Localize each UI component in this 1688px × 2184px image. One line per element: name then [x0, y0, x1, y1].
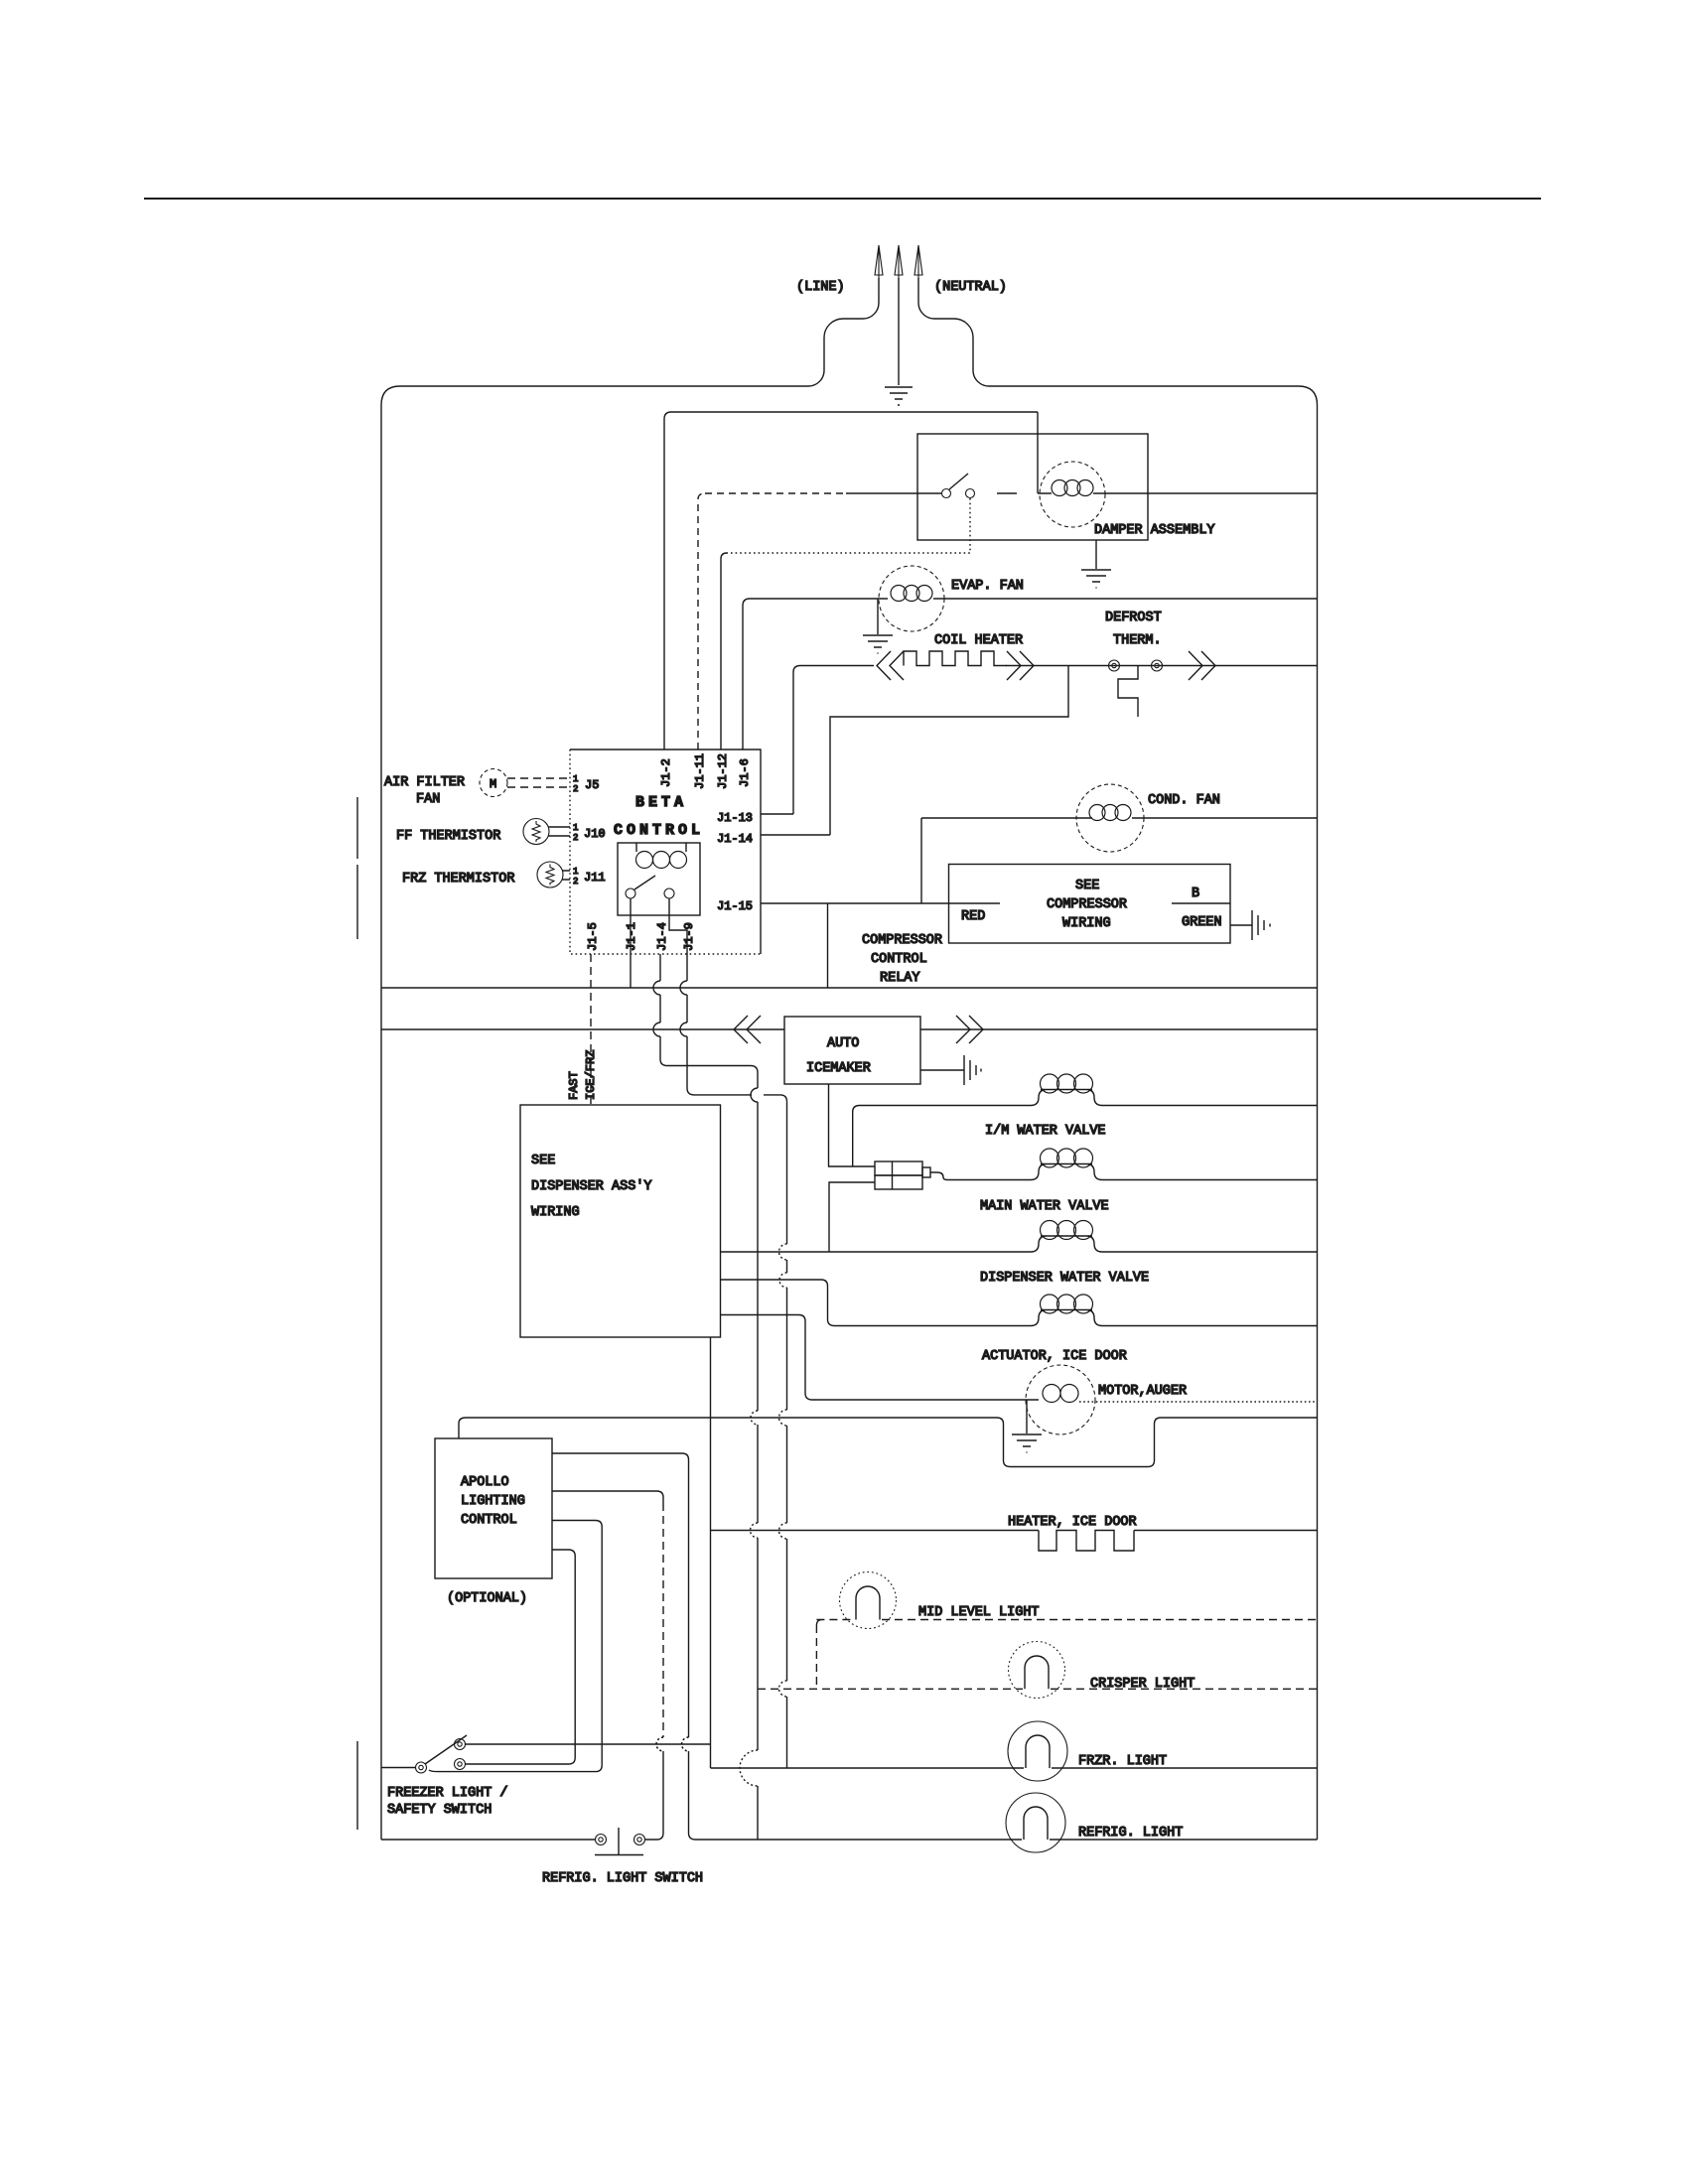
svg-text:2: 2	[573, 784, 578, 794]
ground symbol rotated icemaker	[964, 1055, 981, 1085]
svg-text:WIRING: WIRING	[531, 1205, 580, 1220]
wire solid into damper switch	[846, 492, 941, 494]
svg-text:M: M	[490, 777, 496, 791]
svg-text:COMPRESSOR: COMPRESSOR	[862, 933, 942, 948]
I/M water valve solenoid	[1031, 1090, 1318, 1106]
hop apollo pin1 over freezer wire	[682, 1737, 689, 1751]
svg-text:J11: J11	[584, 871, 606, 885]
defrost therm capillary step	[1118, 666, 1138, 718]
svg-text:REFRIG. LIGHT: REFRIG. LIGHT	[1078, 1826, 1183, 1841]
svg-text:EVAP. FAN: EVAP. FAN	[951, 579, 1024, 594]
svg-text:B: B	[1192, 887, 1199, 901]
svg-text:J1-1: J1-1	[625, 922, 638, 951]
hop apollo pin2 over freezer wire	[656, 1737, 663, 1751]
wires air filter fan to J5 dashed	[507, 778, 570, 787]
wire evap fan to right bus	[933, 598, 1318, 600]
hop J1-4 over icemaker line	[653, 1023, 660, 1059]
svg-text:J1-14: J1-14	[717, 832, 753, 846]
hop bump middle trunk over heater wire	[751, 1523, 759, 1538]
relay switch blade	[634, 876, 655, 889]
svg-text:(NEUTRAL): (NEUTRAL)	[934, 280, 1007, 295]
relay switch contact left	[626, 888, 635, 898]
wire apollo pin4 drop to switch contact	[466, 1550, 575, 1764]
wire frzr light row	[711, 1767, 1318, 1769]
svg-text:J5: J5	[585, 778, 599, 792]
wire J1-6 riser to evap fan	[743, 599, 888, 750]
power plug prong arrow (LINE)	[875, 245, 883, 279]
svg-text:ICE/FRZ: ICE/FRZ	[584, 1050, 598, 1100]
left bus wire	[380, 405, 382, 1840]
wires FRZ thermistor to J11	[562, 871, 570, 880]
svg-text:AIR FILTER: AIR FILTER	[384, 775, 465, 790]
wire dashed damper switch feed	[705, 492, 846, 494]
hop J1-9 over return line	[680, 954, 687, 1023]
svg-text:APOLLO: APOLLO	[461, 1475, 509, 1490]
svg-text:BETA: BETA	[635, 794, 687, 811]
damper assembly box	[917, 434, 1148, 540]
wire crisper light dashed	[758, 1688, 1318, 1690]
air filter fan motor dashed circle	[480, 769, 507, 797]
revision bracket upper	[356, 797, 358, 939]
actuator ice door solenoid	[1031, 1310, 1318, 1326]
wire damper feed drop	[1037, 412, 1039, 493]
refrig light lamp	[1006, 1793, 1065, 1852]
freezer switch upper contact	[455, 1739, 466, 1750]
svg-text:J1-11: J1-11	[693, 753, 707, 789]
hop J1-4 over return line	[653, 954, 660, 1023]
power plug prong arrow (NEUTRAL)	[914, 245, 922, 279]
svg-text:WIRING: WIRING	[1062, 916, 1111, 931]
wire icemaker feed line	[381, 1028, 784, 1030]
relay box inside beta control	[618, 843, 700, 915]
svg-text:J1-15: J1-15	[717, 899, 753, 913]
freezer switch lower contact	[455, 1759, 466, 1770]
svg-text:DAMPER ASSEMBLY: DAMPER ASSEMBLY	[1094, 523, 1215, 538]
svg-text:J1-12: J1-12	[716, 753, 730, 789]
connector chevrons coil heater left	[877, 651, 904, 680]
svg-text:MAIN WATER VALVE: MAIN WATER VALVE	[980, 1199, 1109, 1214]
coil heater element	[904, 651, 1007, 666]
svg-text:J1-4: J1-4	[655, 922, 669, 951]
svg-text:DISPENSER WATER VALVE: DISPENSER WATER VALVE	[980, 1271, 1149, 1286]
freezer light safety switch common terminal	[416, 1762, 427, 1773]
svg-text:I/M WATER VALVE: I/M WATER VALVE	[985, 1124, 1106, 1139]
outer trunk vertical from J1-9	[786, 1102, 788, 1768]
mid level light lamp	[840, 1572, 897, 1629]
ground symbol below plug	[885, 387, 913, 405]
wire apollo top feed and motor dip line	[459, 1418, 1318, 1467]
svg-text:J1-9: J1-9	[682, 922, 696, 951]
wire motor auger row from dispenser box	[721, 1315, 1040, 1401]
see dispenser ass'y wiring box	[520, 1105, 721, 1337]
connector chevrons coil heater right	[1007, 651, 1034, 680]
wire ground prong	[898, 278, 900, 385]
defrost therm terminal left	[1109, 660, 1120, 671]
wire motor auger ground stub	[1026, 1400, 1028, 1433]
wire motor auger dotted to right bus	[1079, 1401, 1318, 1403]
svg-text:ICEMAKER: ICEMAKER	[806, 1061, 871, 1076]
svg-text:CRISPER LIGHT: CRISPER LIGHT	[1090, 1677, 1195, 1692]
svg-text:GREEN: GREEN	[1182, 915, 1222, 930]
damper switch terminal left	[942, 489, 951, 498]
svg-text:LIGHTING: LIGHTING	[461, 1494, 525, 1509]
svg-text:SEE: SEE	[531, 1154, 555, 1168]
middle trunk vertical from J1-4	[751, 1073, 758, 1751]
wire damper ground stub	[1095, 540, 1097, 569]
connector chevrons icemaker left	[734, 1016, 761, 1043]
outer box top edge left segment with rounded corner	[381, 386, 808, 405]
svg-text:2: 2	[573, 833, 578, 843]
connector chevrons defrost right	[1189, 651, 1215, 680]
wire neutral prong to outer box top edge	[918, 278, 989, 386]
wire compressor return bottom line	[381, 987, 1318, 989]
hop bumps trunks over dip line	[751, 1411, 758, 1425]
relay coil	[636, 843, 686, 852]
dotted hop middle trunk over frzr wire	[740, 1750, 758, 1786]
wire green pin to ground	[1230, 924, 1252, 926]
motor auger dashed circle	[1026, 1365, 1095, 1434]
motor auger coil	[1043, 1385, 1060, 1403]
wire heater to right bus	[1134, 1530, 1318, 1532]
wire icemaker box drop to connector	[829, 1084, 876, 1166]
damper motor coil	[1038, 492, 1318, 494]
svg-text:J1-6: J1-6	[738, 758, 752, 787]
wire mid level light dashed	[816, 1619, 1317, 1621]
wire mid level dashed drop to crisper	[816, 1620, 822, 1690]
freezer switch blade	[425, 1735, 467, 1764]
evap fan dashed circle	[879, 566, 944, 631]
wire coil heater to defrost therm	[1006, 665, 1318, 667]
top horizontal rule	[144, 198, 1541, 200]
wire J1-4 jog to middle trunk	[660, 1059, 758, 1073]
svg-text:FRZ THERMISTOR: FRZ THERMISTOR	[402, 872, 514, 887]
heater ice door element	[1039, 1531, 1134, 1552]
wire riser to cond fan	[921, 818, 1092, 903]
svg-text:COMPRESSOR: COMPRESSOR	[1047, 897, 1127, 912]
svg-text:REFRIG. LIGHT SWITCH: REFRIG. LIGHT SWITCH	[542, 1871, 703, 1886]
wire actuator row from dispenser box	[721, 1280, 1032, 1326]
svg-text:CONTROL: CONTROL	[614, 822, 704, 839]
wire heater ice door row	[711, 1530, 1040, 1532]
wire I/M valve branch	[853, 1106, 1031, 1167]
svg-text:SAFETY SWITCH: SAFETY SWITCH	[387, 1803, 492, 1818]
frzr light lamp	[1008, 1721, 1067, 1781]
svg-text:SEE: SEE	[1075, 879, 1099, 893]
wire dispenser water valve row	[721, 1251, 1032, 1253]
auto icemaker box	[784, 1017, 920, 1084]
svg-text:J10: J10	[584, 827, 606, 841]
svg-text:COND. FAN: COND. FAN	[1148, 793, 1220, 808]
FRZ thermistor symbol	[537, 862, 563, 887]
svg-text:HEATER, ICE DOOR: HEATER, ICE DOOR	[1008, 1515, 1137, 1530]
connector chevrons icemaker right	[956, 1016, 983, 1043]
evap fan coil	[891, 586, 907, 602]
svg-text:J1-13: J1-13	[717, 811, 753, 825]
apollo lighting control box	[435, 1438, 552, 1578]
wires FF thermistor to J10	[548, 827, 570, 836]
wire J1-9 inside beta box	[669, 898, 687, 954]
wire bottom edge left to switch	[381, 1839, 595, 1841]
hop bumps verticals over freezer wire	[656, 1737, 689, 1751]
wire apollo pin2 dotted drop	[552, 1491, 663, 1503]
wire J1-1 drop to return line	[630, 898, 632, 988]
wire switch right terminal to riser	[645, 1834, 663, 1841]
wire inner top line J1-2 to damper feed	[664, 412, 1038, 750]
svg-text:DISPENSER ASS'Y: DISPENSER ASS'Y	[531, 1179, 652, 1194]
outer box top edge right segment with rounded corner	[989, 386, 1318, 405]
ground symbol rotated at compressor	[1252, 910, 1270, 940]
pin line B	[1172, 902, 1230, 904]
svg-text:FF THERMISTOR: FF THERMISTOR	[396, 829, 500, 844]
main water valve solenoid	[1031, 1164, 1318, 1180]
beta control box	[570, 750, 761, 954]
svg-text:CONTROL: CONTROL	[461, 1513, 517, 1528]
hop J1-9 over icemaker line	[680, 1023, 687, 1088]
relay switch contact right	[664, 888, 674, 898]
svg-text:1: 1	[573, 823, 578, 833]
svg-text:(OPTIONAL): (OPTIONAL)	[447, 1591, 527, 1606]
ground symbol motor auger	[1012, 1434, 1042, 1452]
FF thermistor symbol	[523, 819, 549, 845]
power plug prong arrow (ground)	[895, 245, 903, 279]
damper switch terminal right	[966, 489, 975, 498]
wire J1-11 dashed riser	[698, 493, 705, 750]
inline connector block	[875, 1161, 922, 1175]
wire apollo pin3 drop to switch common	[429, 1521, 602, 1772]
compressor control relay drop wire	[827, 903, 829, 988]
svg-text:1: 1	[573, 867, 578, 877]
refrig light switch plunger	[595, 1828, 643, 1855]
wire dotted damper switch to J1-12	[727, 498, 970, 553]
svg-text:FREEZER LIGHT /: FREEZER LIGHT /	[387, 1786, 508, 1801]
wire icemaker ground stub	[920, 1069, 964, 1071]
wire J1-12 riser	[721, 553, 727, 750]
wire main valve from connector tab	[930, 1172, 1031, 1180]
svg-text:RELAY: RELAY	[880, 971, 920, 986]
wire dash between switch and damper coil	[997, 492, 1017, 494]
wire icemaker right with chevrons	[920, 1028, 1318, 1030]
svg-text:COIL HEATER: COIL HEATER	[934, 633, 1023, 648]
right bus wire	[1317, 405, 1319, 1840]
svg-text:J1-5: J1-5	[586, 922, 600, 951]
wire cond fan to right bus	[1132, 817, 1318, 819]
svg-text:FAN: FAN	[416, 792, 440, 807]
wire J1-13 stub	[761, 813, 793, 815]
refrig light switch terminal right	[634, 1835, 645, 1845]
svg-text:FRZR. LIGHT: FRZR. LIGHT	[1078, 1754, 1167, 1769]
wire dispenser box bottom drop	[710, 1337, 712, 1768]
wire connector bottom left drop	[829, 1182, 875, 1252]
defrost therm terminal right	[1152, 660, 1163, 671]
svg-text:AUTO: AUTO	[827, 1036, 859, 1051]
cond fan dashed circle	[1076, 784, 1144, 852]
svg-text:FAST: FAST	[567, 1071, 581, 1100]
wire freezer switch upper contact to trunk	[466, 1743, 711, 1745]
cond fan coil	[1089, 805, 1105, 821]
svg-text:RED: RED	[961, 909, 985, 924]
ground symbol damper	[1081, 570, 1111, 588]
wire left bus to switch common	[381, 1767, 415, 1769]
svg-text:ACTUATOR, ICE DOOR: ACTUATOR, ICE DOOR	[982, 1349, 1127, 1364]
wire J1-9 jog to outer trunk	[687, 1088, 787, 1102]
damper motor dashed circle	[1040, 462, 1105, 527]
svg-text:1: 1	[573, 774, 578, 784]
dispenser water valve solenoid	[1031, 1236, 1318, 1252]
see compressor wiring box	[949, 865, 1231, 944]
crisper light lamp	[1009, 1642, 1065, 1699]
svg-text:MID LEVEL LIGHT: MID LEVEL LIGHT	[918, 1605, 1040, 1620]
wire J1-5 dashed drop	[590, 954, 592, 1105]
damper switch blade	[949, 474, 968, 489]
wire J1-13 riser to coil heater	[793, 666, 874, 815]
wire evap fan ground stub	[877, 599, 879, 634]
svg-text:DEFROST: DEFROST	[1105, 611, 1162, 625]
svg-text:THERM.: THERM.	[1113, 633, 1162, 648]
svg-text:(LINE): (LINE)	[796, 280, 845, 295]
refrig light switch terminal left	[596, 1835, 607, 1845]
wire line prong to outer box top edge	[808, 278, 879, 386]
ground symbol evap fan	[863, 635, 893, 653]
wire defrost branch to J1-14	[761, 666, 1068, 836]
wire J1-15 to compressor RED pin	[761, 902, 1000, 904]
wire refrig light row	[696, 1839, 1318, 1841]
svg-text:2: 2	[573, 877, 578, 887]
svg-text:J1-2: J1-2	[659, 758, 673, 787]
revision bracket lower	[356, 1741, 358, 1830]
hop bumps on outer trunk	[779, 1244, 787, 1697]
svg-text:MOTOR,AUGER: MOTOR,AUGER	[1098, 1384, 1187, 1399]
wire apollo pin1 to refrig light drop	[552, 1453, 696, 1840]
svg-text:CONTROL: CONTROL	[871, 952, 927, 967]
